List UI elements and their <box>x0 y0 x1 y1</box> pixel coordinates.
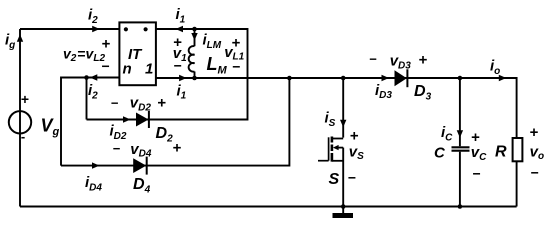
svg-text:−: − <box>232 59 240 75</box>
svg-text:+: + <box>102 36 111 53</box>
svg-text:−: − <box>174 58 182 74</box>
svg-text:+: + <box>232 35 241 52</box>
svg-text:−: − <box>369 52 377 67</box>
svg-text:R: R <box>495 143 507 160</box>
svg-text:+: + <box>157 94 166 111</box>
svg-text:C: C <box>434 145 446 162</box>
svg-text:−: − <box>348 169 356 185</box>
svg-text:S: S <box>329 171 340 188</box>
svg-text:−: − <box>113 141 121 156</box>
svg-text:1: 1 <box>145 61 153 78</box>
svg-text:−: − <box>473 165 481 181</box>
svg-text:−: − <box>102 58 110 74</box>
svg-text:+: + <box>530 124 539 141</box>
svg-text:n: n <box>123 61 132 78</box>
svg-text:+: + <box>173 140 182 157</box>
svg-text:−: − <box>111 95 119 110</box>
svg-text:−: − <box>531 164 539 180</box>
svg-text:+: + <box>21 91 29 107</box>
svg-text:+: + <box>350 127 359 144</box>
svg-text:+: + <box>419 51 428 68</box>
svg-text:-: - <box>21 129 25 144</box>
